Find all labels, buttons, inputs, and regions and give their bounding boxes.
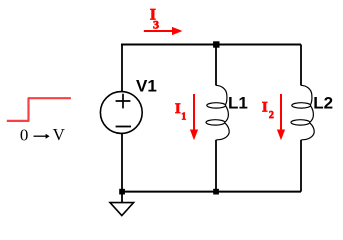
current arrow I1 head xyxy=(190,130,198,141)
svg-text:V1: V1 xyxy=(136,77,157,96)
voltage source V1 minus sign xyxy=(116,126,131,128)
wire bottom horizontal xyxy=(122,191,301,193)
inductor L1 coil xyxy=(206,85,229,140)
current arrow I1 shaft xyxy=(193,94,195,130)
wire top horizontal xyxy=(121,44,301,46)
voltage source V1 circle xyxy=(100,92,142,134)
svg-text:0: 0 xyxy=(20,126,29,145)
wire V1 branch lower xyxy=(121,133,123,191)
node junction top (L1 / top wire) xyxy=(213,41,219,47)
current arrow I3 head xyxy=(172,27,183,35)
node junction bottom left (V1 / ground) xyxy=(119,189,125,195)
svg-text:1: 1 xyxy=(181,111,186,122)
current arrow I3 shaft xyxy=(144,30,173,32)
wire L2 branch lower xyxy=(300,140,302,192)
svg-text:2: 2 xyxy=(269,110,274,121)
ground stem xyxy=(121,192,123,203)
svg-text:3: 3 xyxy=(153,17,159,31)
current arrow I2 shaft xyxy=(280,94,282,130)
wire V1 branch upper xyxy=(121,45,123,92)
svg-text:L1: L1 xyxy=(228,94,248,113)
current arrow I2 head xyxy=(277,130,285,141)
wire L1 branch lower xyxy=(215,140,217,192)
node junction bottom middle (L1 / bottom wire) xyxy=(213,189,219,195)
svg-text:V: V xyxy=(53,125,66,144)
wire L1 branch upper xyxy=(215,45,217,86)
inductor L2 coil xyxy=(291,85,314,140)
voltage source V1 plus sign xyxy=(116,94,131,109)
svg-text:I: I xyxy=(262,100,268,116)
step waveform annotation xyxy=(7,98,71,121)
svg-text:I: I xyxy=(175,101,181,117)
wire L2 branch upper xyxy=(300,45,302,86)
ground triangle xyxy=(110,203,134,216)
svg-text:L2: L2 xyxy=(313,93,333,112)
